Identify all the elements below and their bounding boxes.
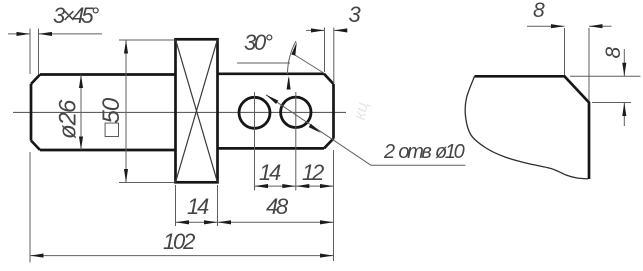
dimension 3x45 chamfer (top left) xyxy=(8,29,102,75)
watermark smudge xyxy=(350,100,372,122)
svg-text:2 отв ø10: 2 отв ø10 xyxy=(383,141,465,163)
svg-text:□50: □50 xyxy=(98,97,125,137)
dimension 102 (overall) xyxy=(30,152,334,263)
svg-text:12: 12 xyxy=(302,160,324,185)
label sq50 (rotated) xyxy=(98,97,125,137)
shaft right section outline xyxy=(218,74,334,149)
svg-text:8: 8 xyxy=(602,47,625,59)
label 48 xyxy=(266,194,289,219)
label 3x45deg xyxy=(53,3,100,28)
svg-text:14: 14 xyxy=(259,160,281,185)
block diagonal X xyxy=(176,39,218,182)
label d26 (rotated) xyxy=(55,99,82,139)
right extension line xyxy=(333,150,335,261)
hole 2 vertical centerline / extension xyxy=(295,92,297,191)
detail view break line (freehand) xyxy=(465,76,588,179)
label 2 otv d10 xyxy=(383,141,465,163)
dimension 14 (block width) and 48 xyxy=(176,185,334,226)
svg-text:8: 8 xyxy=(533,0,545,22)
svg-text:102: 102 xyxy=(163,229,195,254)
svg-text:ø26: ø26 xyxy=(55,99,82,139)
label 102 xyxy=(163,229,195,254)
hole 2 (right ø10) xyxy=(281,97,311,127)
label 8 (top) xyxy=(533,0,545,22)
knurled block (middle section) xyxy=(176,39,218,182)
dimension 3 (right end chamfer) xyxy=(306,28,347,84)
svg-text:14: 14 xyxy=(187,194,209,219)
svg-text:30°: 30° xyxy=(244,30,273,55)
hole 1 vertical centerline / extension xyxy=(254,92,256,191)
label 12 xyxy=(302,160,324,185)
label 8 (right, rotated) xyxy=(602,47,625,59)
shaft left section outline xyxy=(31,75,176,151)
dimension 14 / 12 (hole spacing) xyxy=(255,185,334,187)
detail dimension 8 (horizontal) xyxy=(527,26,612,101)
detail dimension 8 (vertical) xyxy=(570,49,641,126)
svg-text:3×45°: 3×45° xyxy=(53,3,100,28)
hole 1 (left ø10) xyxy=(239,97,270,128)
detail view outline (corner chamfer) xyxy=(475,76,590,179)
label 14 (block) xyxy=(187,194,209,219)
svg-text:кц: кц xyxy=(350,100,372,122)
svg-text:48: 48 xyxy=(266,194,289,219)
label 30deg xyxy=(244,30,273,55)
dimension d26 (left section diameter) xyxy=(80,75,82,151)
svg-text:3: 3 xyxy=(349,2,362,27)
label 14 (holes) xyxy=(259,160,281,185)
label 3 xyxy=(349,2,362,27)
dimension sq50 (block height) xyxy=(119,40,174,183)
leader 2 holes d10 xyxy=(266,95,466,166)
centerline (horizontal axis of shaft) xyxy=(13,111,346,113)
30 degree angle dimension xyxy=(237,41,325,89)
